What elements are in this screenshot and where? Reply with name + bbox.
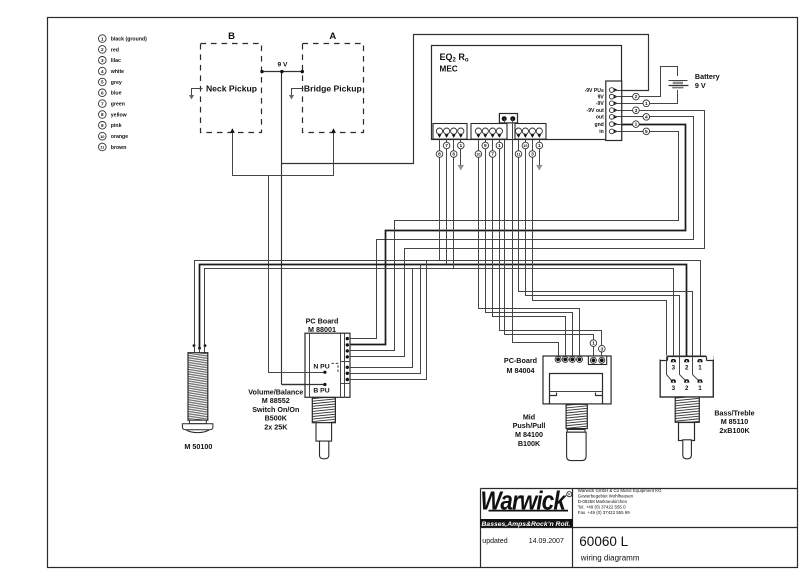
svg-text:2: 2	[685, 365, 689, 372]
svg-text:1: 1	[459, 143, 462, 149]
svg-text:9: 9	[101, 123, 104, 128]
svg-text:EQ2 Ro: EQ2 Ro	[440, 52, 469, 64]
svg-text:in: in	[599, 129, 604, 135]
svg-text:11: 11	[516, 153, 520, 157]
svg-text:pink: pink	[111, 123, 122, 129]
svg-text:yellow: yellow	[111, 112, 128, 118]
svg-text:6: 6	[452, 152, 455, 158]
svg-text:orange: orange	[111, 134, 128, 140]
svg-text:D-08258 Markneukirchen: D-08258 Markneukirchen	[578, 499, 628, 504]
svg-text:Warwick GmbH & Co Music Equipm: Warwick GmbH & Co Music Equipment KG	[578, 488, 662, 493]
svg-text:B500K: B500K	[265, 414, 288, 423]
svg-text:6: 6	[101, 91, 104, 96]
svg-text:10: 10	[523, 144, 527, 148]
svg-text:7: 7	[445, 143, 448, 149]
svg-text:green: green	[111, 102, 125, 108]
svg-text:3: 3	[531, 152, 534, 158]
svg-text:Bass/Treble: Bass/Treble	[714, 408, 754, 417]
svg-text:Push/Pull: Push/Pull	[513, 421, 546, 430]
svg-text:1: 1	[645, 101, 648, 107]
svg-text:Volume/Balance: Volume/Balance	[248, 387, 303, 396]
svg-text:1: 1	[498, 143, 501, 149]
svg-text:Gewerbegebiet Wohlhausen: Gewerbegebiet Wohlhausen	[578, 493, 634, 498]
svg-text:N PU: N PU	[313, 363, 329, 370]
svg-text:black (ground): black (ground)	[111, 37, 147, 43]
svg-text:3: 3	[635, 108, 638, 114]
svg-text:5: 5	[101, 80, 104, 85]
svg-text:-9V out: -9V out	[587, 108, 605, 114]
svg-text:red: red	[111, 47, 119, 53]
svg-text:M 84004: M 84004	[507, 366, 535, 375]
svg-text:7: 7	[101, 101, 104, 106]
svg-text:3: 3	[672, 365, 676, 372]
svg-text:Neck Pickup: Neck Pickup	[206, 84, 257, 94]
svg-text:lilac: lilac	[111, 58, 121, 64]
svg-text:9V: 9V	[598, 94, 605, 100]
svg-text:Mid: Mid	[523, 412, 535, 421]
svg-text:1: 1	[101, 36, 104, 41]
svg-text:9 V: 9 V	[278, 62, 288, 69]
svg-text:2: 2	[635, 94, 638, 100]
svg-text:1: 1	[698, 385, 702, 392]
svg-text:7: 7	[491, 152, 494, 158]
svg-text:5: 5	[645, 129, 648, 135]
svg-text:grey: grey	[111, 80, 122, 86]
svg-text:10: 10	[476, 153, 480, 157]
svg-text:Fax. +49 (0) 37422 555 99: Fax. +49 (0) 37422 555 99	[578, 510, 630, 515]
svg-text:4: 4	[101, 69, 104, 74]
svg-text:2: 2	[685, 385, 689, 392]
svg-text:Warwick: Warwick	[481, 487, 568, 516]
svg-text:M 84100: M 84100	[515, 430, 543, 439]
svg-text:8: 8	[101, 112, 104, 117]
svg-text:out: out	[596, 115, 604, 121]
svg-text:Bridge Pickup: Bridge Pickup	[304, 84, 362, 94]
svg-text:9: 9	[484, 143, 487, 149]
svg-text:B PU: B PU	[313, 387, 329, 394]
svg-text:3: 3	[672, 385, 676, 392]
svg-text:B100K: B100K	[518, 439, 541, 448]
svg-text:R: R	[568, 493, 571, 497]
svg-text:M 85110: M 85110	[721, 417, 749, 426]
svg-text:brown: brown	[111, 145, 127, 151]
svg-text:1: 1	[592, 341, 595, 347]
svg-text:Tel. +49 (0) 37422 555 0: Tel. +49 (0) 37422 555 0	[578, 504, 626, 509]
svg-text:MEC: MEC	[440, 65, 458, 74]
svg-text:M 50100: M 50100	[184, 442, 212, 451]
svg-text:PC-Board: PC-Board	[504, 356, 537, 365]
svg-text:-9V PUs: -9V PUs	[585, 88, 604, 94]
svg-text:M 88552: M 88552	[262, 396, 290, 405]
svg-text:60060 L: 60060 L	[579, 534, 628, 549]
svg-text:10: 10	[100, 134, 104, 139]
svg-text:PC Board: PC Board	[306, 317, 339, 326]
svg-text:blue: blue	[111, 91, 122, 97]
svg-text:3: 3	[600, 346, 603, 352]
svg-text:2: 2	[101, 47, 104, 52]
svg-text:3: 3	[101, 58, 104, 63]
svg-text:Basses,Amps&Rock’n Roll.: Basses,Amps&Rock’n Roll.	[482, 521, 571, 528]
svg-text:wiring diagramm: wiring diagramm	[580, 554, 640, 563]
svg-text:gnd: gnd	[594, 122, 603, 128]
svg-text:2xB100K: 2xB100K	[719, 426, 750, 435]
svg-text:4: 4	[645, 114, 648, 120]
svg-text:B: B	[228, 31, 235, 42]
svg-text:A: A	[329, 31, 336, 42]
svg-text:8: 8	[438, 152, 441, 158]
svg-text:-9V: -9V	[596, 101, 605, 107]
svg-text:white: white	[110, 69, 124, 75]
svg-text:1: 1	[698, 365, 702, 372]
svg-text:Switch On/On: Switch On/On	[252, 405, 299, 414]
svg-text:14.09.2007: 14.09.2007	[529, 538, 564, 545]
svg-text:1: 1	[635, 122, 638, 128]
svg-text:2x 25K: 2x 25K	[264, 423, 288, 432]
svg-text:Battery: Battery	[695, 72, 720, 81]
svg-text:1: 1	[538, 143, 541, 149]
svg-text:updated: updated	[482, 538, 507, 545]
svg-text:9 V: 9 V	[695, 81, 706, 90]
